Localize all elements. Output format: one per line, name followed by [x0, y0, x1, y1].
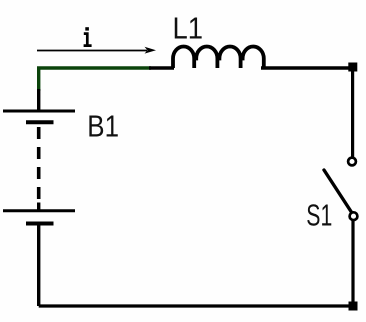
svg-text:L1: L1: [173, 10, 204, 45]
wire right vertical to switch: [351, 68, 354, 158]
wire inductor to node: [261, 66, 353, 69]
switch S1 top terminal: [348, 158, 356, 166]
inductor L1: [173, 47, 264, 69]
node square bottom-right: [349, 302, 358, 311]
battery B1 top cell short plate: [26, 120, 54, 124]
switch S1 bottom terminal: [350, 212, 358, 220]
wire battery top lead: [37, 89, 40, 110]
current arrow i head: [145, 47, 157, 54]
battery bottom cell top stub: [37, 203, 40, 211]
current arrow i shaft: [37, 50, 147, 52]
battery B1 top cell long plate: [3, 110, 75, 113]
switch S1 blade: [324, 170, 352, 213]
wire black to inductor: [149, 66, 174, 69]
node square top-right: [348, 63, 357, 72]
battery B1 bottom cell short plate: [26, 222, 54, 226]
battery B1 bottom cell long plate: [3, 209, 75, 212]
label i: [84, 27, 92, 45]
svg-text:B1: B1: [87, 108, 119, 143]
wire green top-left (highlighted): [39, 68, 151, 91]
wire switch to bottom node: [351, 220, 354, 306]
wire bottom: [39, 304, 353, 307]
wire battery bottom lead: [37, 225, 40, 306]
battery dashed link: [37, 127, 41, 199]
svg-text:S1: S1: [306, 198, 332, 233]
